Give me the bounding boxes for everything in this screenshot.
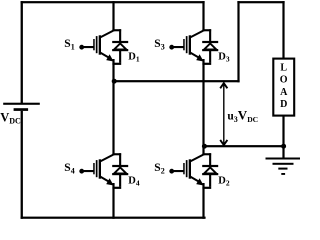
node A (phase A junction dot): [112, 79, 117, 84]
node load-ground junction dot: [281, 144, 286, 149]
wire right leg lower (S2 emitter to bottom rail): [202, 183, 204, 219]
svg-text:D: D: [280, 99, 287, 110]
wire bottom rail (DC- bus): [21, 217, 206, 219]
node B (phase B junction dot): [202, 144, 207, 149]
svg-text:VDC: VDC: [0, 110, 21, 125]
svg-text:S4: S4: [64, 162, 74, 176]
svg-text:O: O: [280, 75, 288, 86]
svg-text:S3: S3: [154, 38, 164, 52]
battery VDC: [3, 103, 40, 111]
wire left leg upper (top rail to S1 collector): [112, 1, 114, 31]
label LOAD: [280, 62, 288, 110]
wire right leg middle (S3 emitter to S2 collector through phase B node): [202, 59, 204, 155]
svg-text:A: A: [280, 87, 288, 98]
wire top rail (DC+ bus): [21, 1, 205, 3]
wire left leg lower (S4 emitter to bottom rail): [112, 183, 114, 219]
transistor S4 (IGBT): [79, 155, 113, 186]
transistor S1 (IGBT): [79, 31, 113, 62]
wire load feed (down to LOAD box): [282, 1, 284, 59]
wire load riser (phase A up to top): [237, 1, 239, 82]
svg-text:L: L: [280, 62, 287, 73]
wire phase A output (horizontal, node A to load riser): [112, 80, 239, 82]
load LOAD (box): [273, 59, 294, 116]
wire load top link (horizontal to right edge): [237, 1, 284, 3]
wire battery positive lead (left vertical top): [21, 1, 23, 103]
svg-text:D4: D4: [128, 175, 140, 187]
diode D1: [112, 29, 128, 65]
diode D2: [202, 153, 218, 189]
svg-text:S1: S1: [64, 38, 74, 52]
wire phase B return (node B to ground node): [203, 145, 284, 147]
svg-text:D2: D2: [218, 175, 230, 187]
diode D4: [112, 153, 128, 189]
wire battery negative lead (left vertical bottom): [21, 111, 23, 219]
svg-text:S2: S2: [154, 162, 164, 176]
diode D3: [202, 29, 218, 65]
voltage arrow u3VDC (double-headed measurement arrow): [220, 82, 227, 146]
ground: [266, 158, 302, 175]
wire left leg middle (S1 emitter to S4 collector through phase A node): [112, 59, 114, 155]
transistor S2 (IGBT): [169, 155, 203, 186]
transistor S3 (IGBT): [169, 31, 203, 62]
wire load bottom lead (LOAD box to ground node): [282, 116, 284, 159]
wire right leg upper (top rail to S3 collector): [202, 1, 204, 31]
svg-text:D1: D1: [128, 51, 140, 63]
svg-text:u3VDC: u3VDC: [227, 108, 258, 125]
svg-text:D3: D3: [218, 51, 230, 63]
